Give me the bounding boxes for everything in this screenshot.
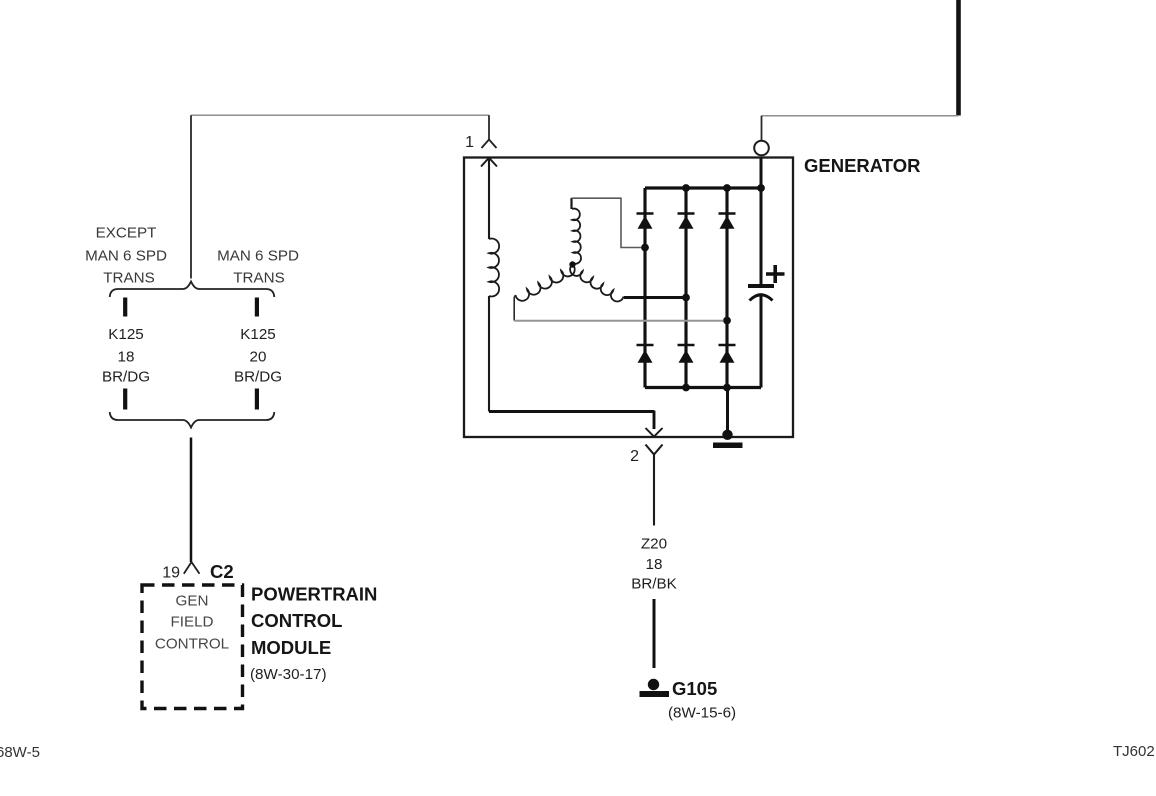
svg-text:FIELD: FIELD: [170, 614, 213, 631]
svg-text:MAN 6 SPD: MAN 6 SPD: [85, 248, 167, 265]
svg-text:K125: K125: [108, 326, 143, 343]
svg-text:G105: G105: [672, 678, 717, 699]
svg-text:Z20: Z20: [641, 536, 667, 553]
svg-text:18: 18: [646, 556, 663, 573]
svg-text:POWERTRAIN: POWERTRAIN: [251, 584, 377, 605]
svg-text:BR/BK: BR/BK: [631, 576, 677, 593]
svg-text:EXCEPT: EXCEPT: [96, 225, 157, 242]
svg-text:1: 1: [465, 134, 474, 151]
svg-text:TRANS: TRANS: [233, 270, 284, 287]
svg-text:GENERATOR: GENERATOR: [804, 155, 921, 176]
svg-text:BR/DG: BR/DG: [102, 369, 150, 386]
svg-text:CONTROL: CONTROL: [155, 636, 229, 653]
svg-text:68W-5: 68W-5: [0, 744, 40, 761]
svg-text:MODULE: MODULE: [251, 637, 331, 658]
svg-text:TRANS: TRANS: [103, 270, 154, 287]
svg-text:MAN 6 SPD: MAN 6 SPD: [217, 248, 299, 265]
svg-text:(8W-30-17): (8W-30-17): [250, 666, 327, 683]
svg-text:GEN: GEN: [176, 593, 209, 610]
svg-text:BR/DG: BR/DG: [234, 369, 282, 386]
svg-text:2: 2: [630, 448, 639, 465]
svg-text:K125: K125: [240, 326, 275, 343]
svg-text:TJ602: TJ602: [1113, 743, 1155, 760]
svg-text:19: 19: [162, 565, 180, 582]
svg-text:20: 20: [250, 349, 267, 366]
svg-text:CONTROL: CONTROL: [251, 610, 342, 631]
svg-text:(8W-15-6): (8W-15-6): [668, 705, 736, 722]
svg-text:18: 18: [118, 349, 135, 366]
svg-text:C2: C2: [210, 561, 234, 582]
